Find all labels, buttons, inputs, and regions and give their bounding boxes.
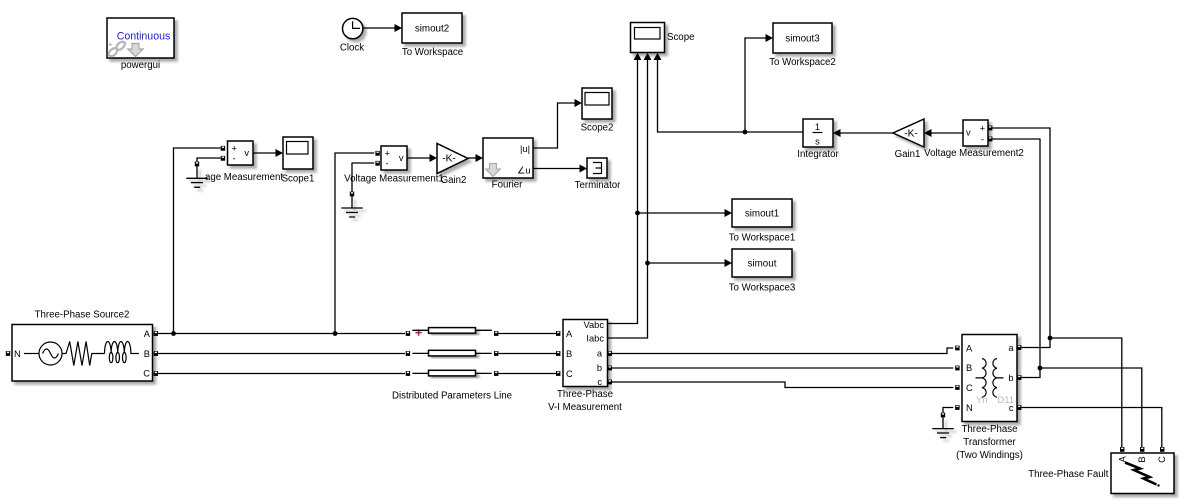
svg-text:Gain1: Gain1 — [895, 149, 921, 160]
port square VM1 - — [375, 161, 379, 166]
svg-text:v: v — [244, 148, 249, 158]
ground G1 — [186, 167, 207, 188]
arrowhead scope input 1 — [634, 53, 642, 60]
svg-text:Vabc: Vabc — [583, 320, 604, 330]
svg-text:To Workspace2: To Workspace2 — [769, 57, 836, 68]
svg-text:B: B — [1137, 456, 1147, 462]
wire VM1 v to Gain2 — [407, 157, 430, 159]
svg-text:simout3: simout3 — [785, 34, 820, 45]
svg-text:C: C — [1157, 456, 1167, 463]
wire phase A source to line — [158, 333, 405, 335]
svg-text:Three-Phase: Three-Phase — [557, 389, 613, 400]
arrowhead scope input 3 — [654, 53, 662, 60]
wire Fourier angle-u to Terminator — [533, 168, 580, 170]
svg-text:Fourier: Fourier — [492, 180, 523, 191]
svg-text:A: A — [566, 329, 573, 339]
wire VM v output to Scope1 — [253, 152, 276, 154]
junction dot a tap — [1048, 336, 1053, 341]
junction dot Iabc branch to simout — [645, 261, 650, 266]
winding primary — [976, 359, 987, 398]
port square VM1 + — [375, 151, 379, 156]
wire branch to simout — [648, 262, 726, 264]
arrowhead into Gain2 — [430, 154, 438, 162]
svg-text:Transformer: Transformer — [963, 437, 1016, 448]
port square V-I a — [608, 351, 612, 356]
svg-text:-K-: -K- — [904, 129, 918, 140]
wire line to V-I A — [499, 333, 557, 335]
svg-text:D11: D11 — [997, 394, 1014, 405]
wire branch to simout1 — [638, 212, 726, 214]
svg-text:C: C — [143, 369, 150, 379]
junction dot at integrator wire branch — [743, 130, 748, 135]
fourier block — [483, 138, 533, 191]
svg-text:V-I Measurement: V-I Measurement — [548, 402, 622, 413]
red plus marker — [415, 329, 421, 335]
svg-text:simout: simout — [748, 259, 777, 270]
svg-text:+: + — [232, 144, 237, 154]
wire Gain1 to Integrator — [840, 132, 893, 134]
port square transformer A — [955, 346, 959, 351]
svg-text:Distributed Parameters Line: Distributed Parameters Line — [392, 391, 512, 402]
powergui U_powergui — [107, 18, 174, 71]
port square source N — [6, 351, 10, 356]
wire V-I a to transformer A — [612, 348, 953, 354]
port square transformer c — [1017, 405, 1021, 410]
arrowhead into simout — [725, 259, 733, 267]
svg-text:|u|: |u| — [520, 144, 530, 154]
junction dot phase A tap 2 — [333, 331, 338, 336]
wire Vabc to scope input 1 — [608, 60, 638, 324]
svg-text:Iabc: Iabc — [586, 334, 604, 344]
svg-text:-: - — [386, 159, 389, 169]
port square fault A — [1120, 447, 1124, 452]
wire Gain2 to Fourier — [468, 157, 476, 159]
port square VM - — [221, 156, 225, 161]
scope2 block — [581, 88, 614, 134]
svg-text:N: N — [14, 349, 21, 359]
port square VM + — [221, 146, 225, 151]
svg-text:Voltage Measurement1: Voltage Measurement1 — [344, 174, 444, 185]
svg-text:Gain2: Gain2 — [441, 175, 467, 186]
voltage measurement block (age Measurement) — [205, 141, 283, 183]
port square VM2 - — [988, 137, 992, 142]
voltage measurement1 block — [344, 146, 444, 185]
wire V-I b to transformer B — [612, 367, 953, 369]
wire line to V-I B — [499, 353, 557, 355]
junction dot Vabc branch to simout1 — [635, 211, 640, 216]
wire phase B source to line — [158, 353, 405, 355]
wire V-I c to transformer C — [612, 382, 953, 388]
arrowhead scope input 2 — [644, 53, 652, 60]
wire transformer a to fault A and VM2 — [1022, 338, 1122, 447]
wire VM2 - tap — [992, 139, 1040, 368]
svg-text:powergui: powergui — [121, 60, 160, 71]
three-phase transformer block — [956, 335, 1023, 462]
svg-text:Scope: Scope — [667, 32, 694, 43]
line segment B — [412, 352, 491, 354]
svg-text:1: 1 — [815, 122, 820, 132]
svg-text:To Workspace3: To Workspace3 — [729, 283, 796, 294]
svg-text:-: - — [981, 135, 984, 145]
wire integrator output to scope input 3 — [658, 60, 804, 133]
scope1 block — [282, 137, 315, 185]
svg-text:v: v — [966, 128, 971, 138]
arrowhead into Scope2 — [575, 99, 583, 107]
wire VM + tap to phase A — [174, 148, 221, 334]
port square line A in — [406, 331, 410, 336]
arrowhead into simout3 — [766, 34, 774, 42]
arrowhead into Integrator (pointing left) — [833, 129, 841, 137]
svg-text:Continuous: Continuous — [117, 31, 171, 43]
integrator block — [797, 119, 839, 160]
voltage measurement2 block (mirrored) — [924, 120, 1024, 159]
wire transformer b to fault B and VM2 — [1022, 368, 1142, 447]
winding secondary — [993, 359, 1004, 398]
port square source C — [154, 371, 158, 376]
lightning bolt — [1125, 463, 1157, 485]
port square line C out — [494, 371, 498, 376]
wire branch up to simout3 — [745, 38, 766, 132]
svg-text:c: c — [597, 377, 602, 387]
arrowhead into Terminator — [580, 165, 588, 173]
port square fault B — [1140, 447, 1144, 452]
svg-text:a: a — [597, 349, 603, 359]
line segment C — [412, 372, 491, 374]
wire VM1 - to ground — [352, 163, 374, 192]
wire line to V-I C — [499, 373, 557, 375]
svg-text:∠u: ∠u — [517, 166, 531, 176]
ground G3 port — [941, 413, 945, 418]
three-phase V-I measurement block — [548, 320, 622, 414]
svg-text:-K-: -K- — [442, 154, 456, 165]
svg-text:C: C — [566, 369, 573, 379]
svg-text:To Workspace1: To Workspace1 — [729, 233, 796, 244]
To Workspace1 block simout1 — [729, 199, 796, 244]
gain Gain1 (points left) — [893, 119, 924, 160]
wire VM2 + tap — [992, 128, 1050, 338]
port square fault C — [1160, 447, 1164, 452]
gain Gain2 — [437, 144, 468, 187]
port square transformer a — [1017, 345, 1021, 350]
three-phase source2 block — [12, 310, 153, 382]
arrowhead into Scope1 — [276, 149, 284, 157]
svg-text:(Two Windings): (Two Windings) — [956, 450, 1023, 461]
ground G2 — [341, 196, 362, 217]
svg-text:a: a — [1008, 343, 1014, 353]
svg-text:C: C — [966, 383, 973, 393]
wire phase C source to line — [158, 373, 405, 375]
svg-text:b: b — [597, 363, 602, 373]
arrowhead into Fourier — [476, 154, 484, 162]
svg-text:age Measurement: age Measurement — [205, 172, 283, 183]
port square line B out — [494, 351, 498, 356]
port square transformer C — [955, 385, 959, 390]
ground G1 port — [195, 162, 199, 167]
port square line C in — [406, 371, 410, 376]
svg-text:Voltage Measurement2: Voltage Measurement2 — [924, 148, 1024, 159]
svg-text:A: A — [144, 329, 151, 339]
svg-text:-: - — [233, 154, 236, 164]
To Workspace3 block simout — [729, 249, 796, 294]
svg-text:To Workspace: To Workspace — [402, 47, 463, 58]
wire Iabc to scope input 2 — [608, 60, 648, 339]
svg-text:N: N — [966, 403, 973, 413]
wire VM1 + tap to phase A — [335, 153, 374, 334]
port square transformer b — [1017, 375, 1021, 380]
port square line A out — [494, 331, 498, 336]
svg-text:Three-Phase Source2: Three-Phase Source2 — [35, 310, 130, 321]
port square V-I C — [556, 371, 560, 376]
port square line B in — [406, 351, 410, 356]
svg-text:B: B — [966, 363, 972, 373]
svg-text:+: + — [980, 124, 985, 134]
svg-text:B: B — [566, 349, 572, 359]
svg-text:s: s — [815, 137, 820, 147]
port square VM2 + — [988, 126, 992, 131]
svg-text:simout2: simout2 — [415, 24, 449, 35]
svg-text:B: B — [144, 349, 150, 359]
arrowhead into simout1 — [725, 209, 733, 217]
ground G3 — [932, 417, 953, 437]
To Workspace block simout2 — [402, 13, 463, 58]
wire VM2 v to Gain1 — [931, 132, 963, 134]
scope SCOPE (3 inputs) — [631, 23, 695, 53]
svg-text:simout1: simout1 — [745, 209, 779, 220]
terminator block — [575, 158, 622, 191]
wire Fourier |u| to Scope2 — [533, 103, 575, 148]
wire transformer c to fault C — [1022, 408, 1162, 448]
port square source A — [154, 331, 158, 336]
svg-text:A: A — [1117, 455, 1127, 462]
svg-text:Clock: Clock — [340, 43, 364, 54]
svg-text:+: + — [385, 149, 390, 159]
clock CLK1 — [340, 18, 364, 53]
svg-text:Scope2: Scope2 — [581, 123, 614, 134]
svg-text:b: b — [1008, 373, 1013, 383]
svg-text:Three-Phase Fault: Three-Phase Fault — [1028, 469, 1109, 480]
junction dot phase A tap 1 — [171, 331, 176, 336]
line segment A — [412, 329, 491, 331]
port square transformer N — [955, 405, 959, 410]
port square source B — [154, 351, 158, 356]
arrowhead into Gain1 (pointing left) — [924, 129, 932, 137]
To Workspace2 block simout3 — [769, 23, 836, 68]
ground G2 port — [350, 192, 354, 197]
svg-text:Integrator: Integrator — [797, 149, 839, 160]
svg-text:Scope1: Scope1 — [282, 174, 315, 185]
three-phase fault block — [1028, 453, 1174, 494]
wire transformer N to ground — [943, 408, 953, 414]
junction dot b tap — [1038, 366, 1043, 371]
svg-text:Terminator: Terminator — [575, 180, 622, 191]
svg-text:Three-Phase: Three-Phase — [961, 424, 1017, 435]
svg-text:A: A — [966, 344, 973, 354]
arrowhead into simout2 — [395, 24, 403, 32]
wire VM - to ground — [197, 158, 221, 162]
distributed parameters line block — [392, 328, 512, 402]
port square V-I A — [556, 331, 560, 336]
port square V-I c — [608, 380, 612, 385]
wire Clock to To Workspace — [363, 27, 395, 29]
port square transformer B — [955, 366, 959, 371]
port square V-I B — [556, 351, 560, 356]
port square V-I b — [608, 366, 612, 371]
svg-text:v: v — [399, 153, 404, 163]
